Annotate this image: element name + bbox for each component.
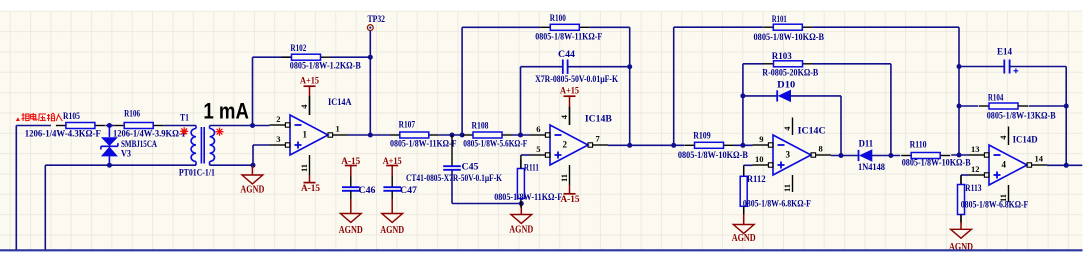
- svg-text:AGND: AGND: [509, 224, 533, 235]
- power port A+15 IC14B: [560, 85, 579, 107]
- wire pin12 corner: [961, 174, 969, 176]
- resistor R107: [390, 121, 457, 150]
- resistor R104: [979, 94, 1056, 122]
- wire R103 left: [743, 63, 764, 65]
- svg-text:IC14A: IC14A: [328, 98, 352, 108]
- svg-text:IC14B: IC14B: [585, 114, 613, 124]
- svg-text:6: 6: [536, 124, 540, 134]
- resistor R113: [958, 176, 1029, 224]
- svg-text:SMBJ15CA: SMBJ15CA: [121, 140, 157, 150]
- svg-text:R104: R104: [988, 94, 1004, 104]
- capacitor C46 stem top: [350, 177, 352, 188]
- svg-text:0805-1/8W-11KΩ-F: 0805-1/8W-11KΩ-F: [390, 140, 457, 150]
- capacitor C45 plates: [443, 163, 479, 173]
- svg-text:0805-1/8W-10KΩ-B: 0805-1/8W-10KΩ-B: [902, 159, 972, 169]
- junction R104 left: [957, 104, 962, 109]
- ground AGND R112: [732, 214, 756, 244]
- svg-text:R108: R108: [472, 121, 489, 131]
- junction pin2 node: [250, 123, 255, 128]
- wire T1 bottom to junction: [210, 164, 253, 166]
- wire input left vertical: [15, 126, 17, 251]
- wire pin12 drop: [960, 175, 962, 185]
- test point TP32: [367, 14, 385, 31]
- junction AGND node: [251, 163, 256, 168]
- wire input top: [16, 125, 51, 127]
- wire T1 to pin2: [210, 125, 270, 127]
- svg-text:3: 3: [786, 150, 791, 160]
- op-amp IC14C: [753, 118, 832, 193]
- no-ERC marker left: [180, 127, 188, 135]
- wire C44 riser left: [520, 67, 522, 135]
- wire R108 to pin6: [512, 134, 530, 136]
- junction R102 right: [368, 55, 373, 60]
- wire R104 left: [959, 105, 978, 107]
- svg-text:0805-1/8W-10KΩ-B: 0805-1/8W-10KΩ-B: [678, 151, 749, 161]
- wire pin4 IC14B: [569, 107, 571, 125]
- svg-text:D10: D10: [777, 80, 795, 90]
- wire V3 bottom rail: [45, 164, 196, 166]
- svg-text:12: 12: [971, 164, 980, 174]
- svg-text:11: 11: [299, 164, 309, 172]
- ground AGND C46: [339, 214, 363, 237]
- wire C44 left: [521, 66, 563, 68]
- svg-text:A-15: A-15: [341, 156, 360, 166]
- svg-text:PT01C-1/1: PT01C-1/1: [179, 169, 215, 179]
- wire C45 down: [451, 170, 453, 203]
- svg-text:5: 5: [536, 144, 540, 154]
- svg-text:X7R-0805-50V-0.01μF-K: X7R-0805-50V-0.01μF-K: [535, 75, 619, 85]
- svg-text:T1: T1: [180, 113, 189, 123]
- svg-text:3: 3: [276, 134, 280, 144]
- svg-text:14: 14: [1035, 153, 1044, 163]
- resistor R108: [463, 121, 527, 149]
- wire inner riser left: [742, 64, 744, 146]
- svg-text:1: 1: [303, 130, 308, 140]
- svg-text:R105: R105: [63, 112, 80, 122]
- wire D10 left: [743, 95, 777, 97]
- capacitor C46: [342, 186, 376, 196]
- junction pin13 node: [957, 153, 962, 158]
- svg-text:1206-1/4W-3.9KΩ-F: 1206-1/4W-3.9KΩ-F: [113, 130, 187, 140]
- junction R101 riser: [671, 143, 676, 148]
- capacitor C47 stem top: [391, 177, 393, 188]
- junction C45 node: [450, 133, 455, 138]
- wire IC14A out: [348, 134, 370, 136]
- ground AGND R113: [949, 222, 973, 253]
- wire D11 to R110: [872, 155, 901, 157]
- svg-text:8: 8: [819, 143, 823, 153]
- resistor R110: [901, 141, 971, 169]
- wire R105 to V3: [105, 125, 114, 127]
- svg-text:R111: R111: [524, 164, 539, 174]
- svg-text:A-15: A-15: [301, 183, 320, 193]
- wire R100 left: [462, 26, 540, 28]
- wire R100 riser left: [461, 27, 463, 135]
- junction output IC14A: [368, 133, 373, 138]
- capacitor C44: [558, 50, 575, 74]
- op-amp IC14D: [969, 127, 1048, 203]
- svg-text:IC14C: IC14C: [798, 127, 826, 137]
- wire C45 bottom run: [452, 203, 521, 205]
- capacitor C46 stem bottom: [350, 191, 352, 214]
- svg-text:1: 1: [336, 123, 340, 133]
- svg-text:1N4148: 1N4148: [858, 163, 885, 173]
- wire E14 right: [1010, 66, 1067, 68]
- wire junction to pin3 b: [253, 144, 270, 146]
- wire R103 right: [813, 63, 891, 65]
- resistor R103: [762, 52, 819, 79]
- wire R106 to T1: [163, 125, 196, 127]
- junction V3 top: [107, 123, 112, 128]
- wire R103 riser right: [890, 64, 892, 156]
- wire junction up to pin3 a: [252, 145, 254, 165]
- svg-text:A+15: A+15: [560, 85, 579, 95]
- svg-text:AGND: AGND: [240, 184, 264, 195]
- wire pin10 corner: [744, 164, 753, 166]
- svg-text:0805-1/8W-10KΩ-B: 0805-1/8W-10KΩ-B: [754, 33, 825, 43]
- junction C44 node: [518, 133, 523, 138]
- junction out right: [1064, 163, 1069, 168]
- resistor R101: [754, 15, 825, 43]
- svg-text:C45: C45: [462, 163, 479, 173]
- svg-text:TP32: TP32: [368, 14, 386, 24]
- junction D10 branch: [740, 93, 745, 98]
- svg-text:13: 13: [971, 144, 980, 154]
- wire pin4 IC14A: [309, 96, 311, 115]
- svg-text:0805-1/8W-13KΩ-B: 0805-1/8W-13KΩ-B: [987, 112, 1057, 122]
- wire E14 left: [959, 66, 1004, 68]
- svg-text:0805-1/8W-1.2KΩ-B: 0805-1/8W-1.2KΩ-B: [290, 61, 362, 71]
- wire pin2 riser: [252, 57, 254, 125]
- wire IC14B out: [608, 144, 684, 146]
- wire pin11 stem IC14B: [569, 185, 571, 194]
- svg-text:0805-1/8W-6.8KΩ-F: 0805-1/8W-6.8KΩ-F: [961, 201, 1029, 211]
- wire R101 left: [674, 26, 763, 28]
- junction C44 right: [627, 64, 632, 69]
- svg-text:R110: R110: [910, 141, 927, 151]
- svg-text:AGND: AGND: [339, 225, 363, 236]
- ground AGND C45: [509, 204, 533, 236]
- svg-text:0805-1/8W-11KΩ-F: 0805-1/8W-11KΩ-F: [494, 193, 562, 203]
- svg-text:R109: R109: [693, 132, 711, 142]
- svg-text:A-15: A-15: [561, 194, 580, 204]
- op-amp IC14B: [530, 106, 613, 185]
- svg-text:1 mA: 1 mA: [203, 99, 249, 124]
- wire IC14D out: [1047, 164, 1082, 166]
- junction R100 node: [460, 133, 465, 138]
- svg-text:AGND: AGND: [732, 233, 756, 244]
- capacitor E14: [997, 47, 1018, 73]
- label C45 value: [406, 174, 502, 184]
- resistor R106: [113, 110, 187, 140]
- power port A+15 C47: [383, 156, 402, 177]
- wire R110 to pin13: [951, 154, 968, 156]
- wire pin5 to R111 corner: [521, 154, 530, 156]
- wire R101 riser right: [958, 27, 960, 155]
- junction R104 right: [1064, 104, 1069, 109]
- svg-text:A+15: A+15: [300, 75, 319, 85]
- svg-text:0805-1/8W-6.8KΩ-F: 0805-1/8W-6.8KΩ-F: [743, 199, 811, 209]
- wire IC14C out: [831, 155, 859, 157]
- diode D10: [777, 80, 795, 101]
- resistor R111: [494, 160, 562, 208]
- svg-text:E14: E14: [997, 47, 1012, 57]
- svg-text:1206-1/4W-4.3KΩ-F: 1206-1/4W-4.3KΩ-F: [25, 130, 101, 140]
- svg-text:C47: C47: [400, 186, 417, 196]
- transformer T1: [179, 113, 215, 178]
- wire TP32 riser: [369, 31, 371, 136]
- svg-text:2: 2: [563, 140, 568, 150]
- wire R112 bottom pin: [743, 206, 745, 214]
- resistor R109: [678, 132, 749, 161]
- wire R102 to TP riser: [331, 56, 371, 58]
- svg-text:D11: D11: [859, 139, 874, 149]
- resistor R100: [535, 14, 602, 43]
- resistor R105: [25, 112, 105, 140]
- resistor R102: [282, 44, 362, 71]
- svg-text:11: 11: [559, 174, 569, 182]
- ground AGND C47: [380, 214, 404, 237]
- op-amp IC14A: [270, 96, 352, 176]
- wire R101 riser left: [673, 27, 675, 145]
- wire R111 top: [520, 155, 522, 169]
- capacitor C47: [383, 186, 417, 196]
- svg-text:AGND: AGND: [380, 225, 404, 236]
- svg-text:A+15: A+15: [383, 156, 402, 166]
- capacitor C45: [451, 135, 453, 166]
- svg-text:2: 2: [276, 114, 280, 124]
- junction D10 out: [839, 153, 844, 158]
- junction D10 left node: [740, 143, 745, 148]
- svg-text:IC14D: IC14D: [1013, 136, 1038, 146]
- power port A-15 IC14B: [561, 194, 580, 204]
- wire bottom border: [0, 249, 1083, 251]
- wire fb riser right: [1065, 67, 1067, 166]
- svg-text:R100: R100: [550, 14, 566, 24]
- wire R109 to pin9: [734, 144, 753, 146]
- wire R104 right: [1029, 105, 1067, 107]
- svg-text:R103: R103: [772, 52, 792, 62]
- wire R100 right: [589, 26, 629, 28]
- svg-text:R107: R107: [399, 121, 416, 131]
- svg-text:11: 11: [782, 184, 792, 192]
- ground AGND transformer: [240, 165, 264, 195]
- no-ERC marker right: [215, 128, 223, 136]
- svg-text:R112: R112: [747, 175, 766, 185]
- svg-text:4: 4: [1002, 160, 1007, 170]
- TVS diode V3: [101, 126, 157, 166]
- junction fb riser: [627, 143, 632, 148]
- wire pin11 stem IC14A: [309, 175, 311, 183]
- svg-text:C46: C46: [359, 186, 376, 196]
- wire riser to R102: [253, 56, 292, 58]
- junction E14 left: [957, 64, 962, 69]
- svg-text:V3: V3: [121, 150, 131, 160]
- svg-text:0805-1/8W-5.6KΩ-F: 0805-1/8W-5.6KΩ-F: [463, 140, 527, 150]
- label C44 value: [535, 75, 619, 85]
- svg-text:R113: R113: [965, 184, 982, 194]
- power port A-15 C46: [341, 156, 360, 177]
- power port A-15 IC14A: [301, 183, 320, 193]
- wire pin10 drop: [743, 165, 745, 176]
- diode D11: [858, 139, 885, 172]
- svg-text:R101: R101: [772, 15, 787, 25]
- svg-text:C44: C44: [558, 50, 575, 60]
- wire R107 to R108: [439, 134, 463, 136]
- svg-text:0805-1/8W-11KΩ-F: 0805-1/8W-11KΩ-F: [535, 33, 602, 43]
- junction V3 bottom: [107, 163, 112, 168]
- wire to R107: [370, 134, 390, 136]
- capacitor C47 stem bottom: [391, 191, 393, 214]
- svg-text:R106: R106: [124, 110, 140, 120]
- svg-text:R102: R102: [290, 44, 306, 54]
- label 1mA: [203, 99, 249, 124]
- wire D10 riser right: [840, 96, 842, 156]
- svg-text:CT41-0805-X7R-50V-0.1μF-K: CT41-0805-X7R-50V-0.1μF-K: [406, 174, 502, 184]
- svg-text:R-0805-20KΩ-B: R-0805-20KΩ-B: [762, 69, 819, 79]
- svg-text:10: 10: [755, 154, 764, 164]
- wire R101 right: [812, 26, 959, 28]
- resistor R112: [740, 167, 811, 215]
- junction R111 bottom: [519, 201, 524, 206]
- junction R103 out: [888, 153, 893, 158]
- wire D10 right: [790, 95, 841, 97]
- net label A相电压输入: [16, 113, 62, 121]
- wire R100 riser right: [629, 27, 631, 145]
- svg-text:9: 9: [759, 134, 763, 144]
- wire bottom-left vertical: [44, 165, 46, 250]
- wire C44 right: [568, 66, 630, 68]
- power port A+15 IC14A: [300, 75, 319, 96]
- wire R113 bottom pin: [960, 215, 962, 223]
